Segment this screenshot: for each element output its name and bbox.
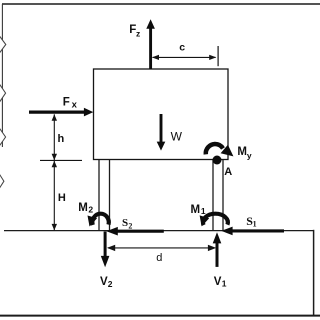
svg-text:M: M	[237, 146, 247, 158]
svg-text:1: 1	[201, 206, 206, 216]
svg-text:y: y	[247, 151, 252, 161]
svg-text:F: F	[63, 97, 70, 109]
svg-text:M: M	[191, 204, 201, 216]
svg-text:W: W	[171, 129, 183, 143]
svg-text:x: x	[72, 100, 78, 111]
svg-text:H: H	[58, 192, 66, 204]
svg-text:h: h	[58, 133, 65, 145]
svg-text:2: 2	[128, 221, 132, 230]
svg-text:d: d	[156, 252, 162, 264]
svg-text:1: 1	[253, 219, 257, 228]
svg-text:2: 2	[108, 279, 113, 289]
svg-text:V: V	[100, 276, 108, 288]
svg-text:A: A	[224, 166, 232, 178]
svg-text:M: M	[78, 202, 88, 214]
svg-text:z: z	[136, 29, 140, 39]
svg-text:1: 1	[222, 278, 227, 288]
svg-text:2: 2	[88, 204, 93, 214]
svg-text:V: V	[214, 276, 222, 288]
svg-text:S: S	[122, 217, 128, 229]
svg-text:c: c	[179, 42, 185, 54]
